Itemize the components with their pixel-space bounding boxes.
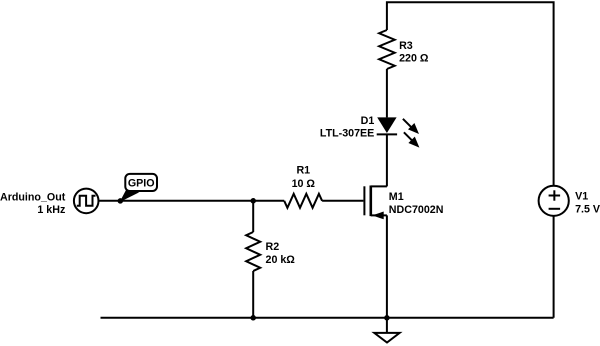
- svg-text:LTL-307EE: LTL-307EE: [320, 128, 374, 140]
- svg-text:10 Ω: 10 Ω: [292, 178, 316, 190]
- svg-text:R3: R3: [399, 40, 413, 52]
- svg-text:V1: V1: [575, 191, 588, 203]
- svg-text:20 kΩ: 20 kΩ: [266, 254, 296, 266]
- svg-text:R2: R2: [266, 241, 280, 253]
- svg-text:GPIO: GPIO: [128, 178, 155, 190]
- svg-text:NDC7002N: NDC7002N: [389, 204, 444, 216]
- svg-text:D1: D1: [361, 115, 375, 127]
- svg-text:1 kHz: 1 kHz: [37, 204, 65, 216]
- svg-text:Arduino_Out: Arduino_Out: [0, 192, 66, 204]
- svg-text:220 Ω: 220 Ω: [399, 53, 429, 65]
- svg-text:M1: M1: [389, 191, 404, 203]
- svg-text:7.5 V: 7.5 V: [575, 203, 600, 215]
- svg-text:R1: R1: [296, 165, 310, 177]
